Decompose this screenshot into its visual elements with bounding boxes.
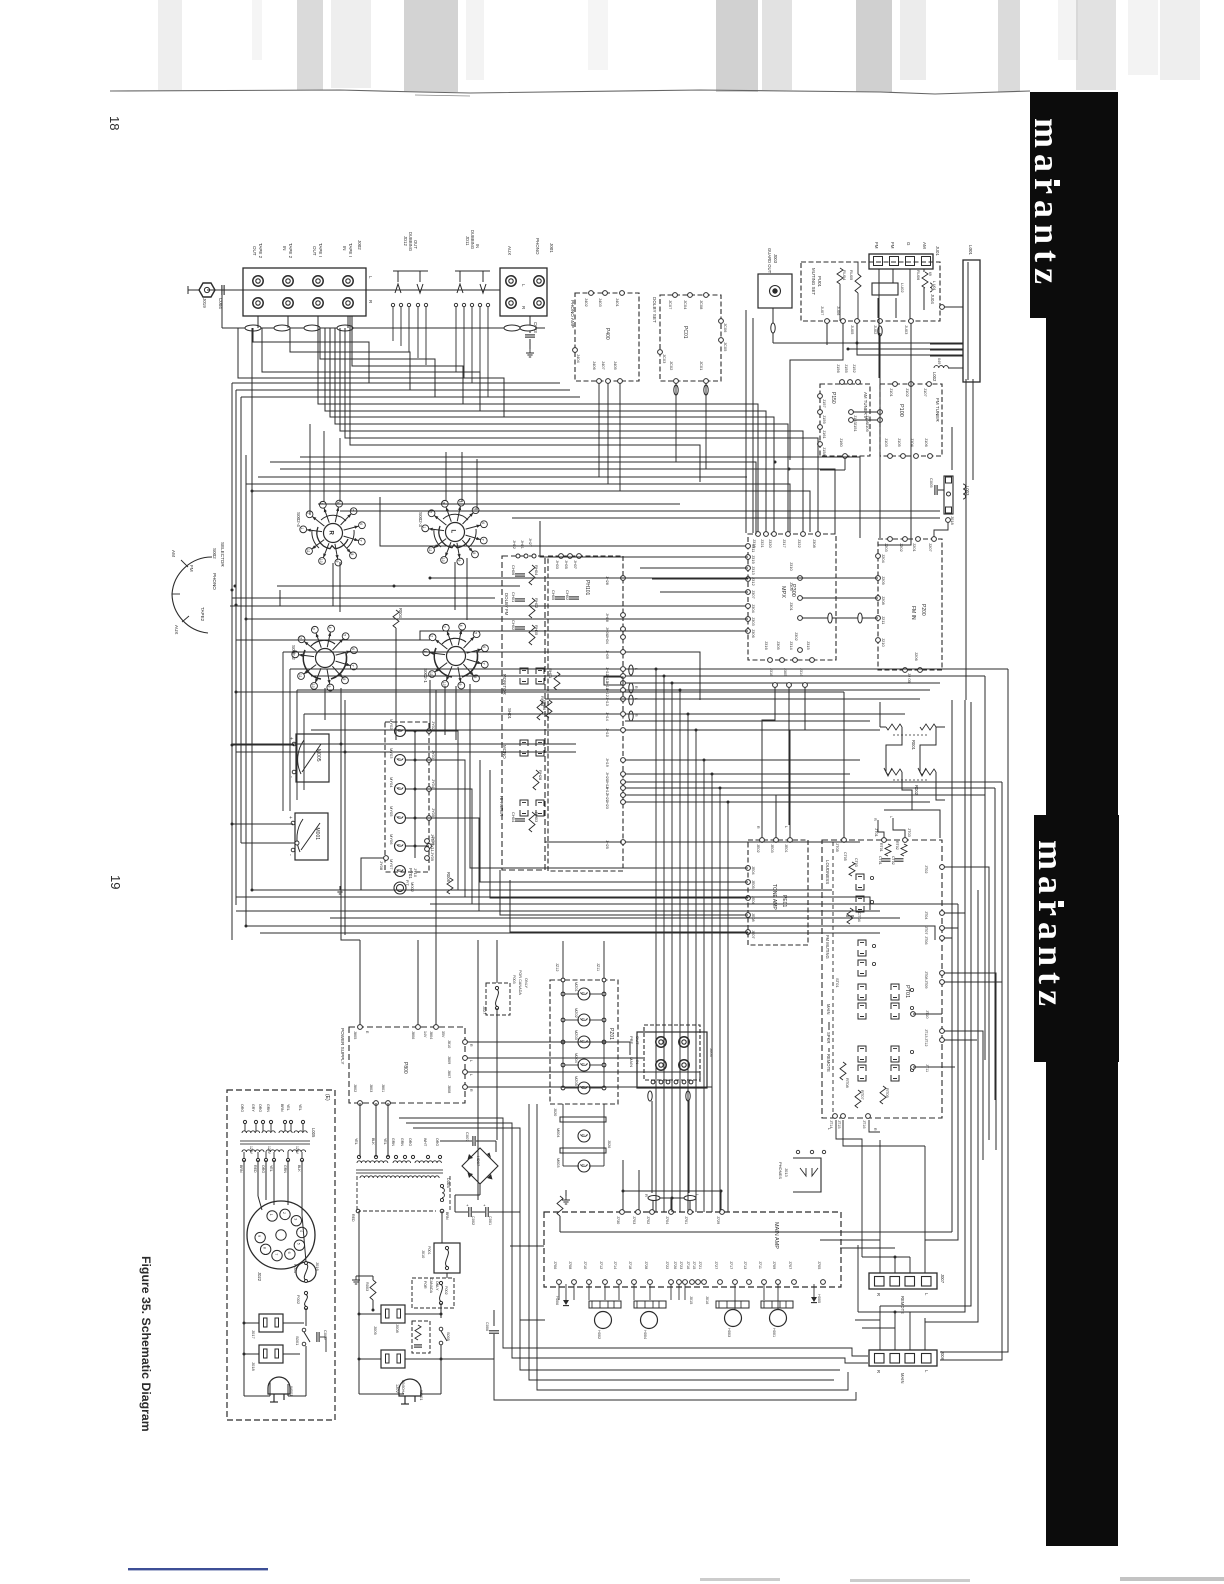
svg-text:PZ01: PZ01	[608, 1028, 614, 1040]
pin JY09	[425, 856, 430, 861]
svg-text:J209: J209	[881, 576, 886, 585]
wire	[236, 897, 870, 910]
svg-text:RED: RED	[351, 1214, 355, 1222]
svg-text:R002: R002	[914, 785, 919, 796]
svg-text:J407: J407	[601, 361, 606, 370]
pin JH05	[568, 554, 573, 559]
switch S001	[302, 1328, 306, 1332]
pin JU07	[825, 319, 830, 324]
outlet J008	[381, 1305, 405, 1323]
pin JH19	[621, 758, 626, 763]
pin JE05	[746, 880, 751, 885]
svg-text:S002-4: S002-4	[296, 512, 301, 527]
svg-text:2: 2	[298, 637, 302, 639]
svg-text:JU01: JU01	[935, 246, 940, 256]
svg-text:J003: J003	[773, 254, 778, 264]
wire	[703, 760, 705, 1212]
resistor RU06	[922, 272, 928, 288]
wire bundle from tape jacks	[257, 316, 259, 328]
capacitor CH01	[515, 598, 525, 600]
wire	[430, 577, 870, 579]
pin JE06	[746, 896, 751, 901]
svg-text:F002: F002	[296, 1295, 301, 1305]
board P300 MPX	[748, 534, 836, 660]
pin JT05	[842, 838, 847, 843]
svg-text:C002: C002	[471, 1216, 475, 1225]
svg-text:S005: S005	[446, 1332, 450, 1341]
svg-text:J015: J015	[689, 1296, 693, 1304]
svg-text:REMOTE: REMOTE	[826, 1054, 831, 1072]
svg-text:JU06: JU06	[836, 306, 841, 316]
wire tone amp feeds	[470, 750, 748, 868]
pin JT10	[911, 1012, 916, 1017]
jack TAPE 2 OUT	[253, 276, 263, 286]
svg-text:R: R	[469, 1089, 473, 1092]
pin JC03	[658, 350, 663, 355]
svg-text:J001: J001	[549, 243, 554, 253]
svg-text:8: 8	[350, 553, 354, 555]
svg-text:ST01: ST01	[835, 978, 840, 988]
svg-text:BLK: BLK	[297, 1165, 301, 1172]
svg-text:CT04: CT04	[857, 912, 862, 923]
svg-text:JC08: JC08	[699, 300, 704, 310]
svg-text:J809: J809	[447, 1056, 451, 1064]
pin J717	[733, 1280, 738, 1285]
meter M001	[295, 813, 328, 860]
svg-text:7: 7	[351, 665, 355, 667]
svg-text:J317: J317	[782, 539, 787, 548]
svg-text:JT12: JT12	[924, 1038, 928, 1046]
lamp MY07	[395, 866, 406, 877]
svg-text:PY01: PY01	[408, 868, 413, 879]
pin JC08	[704, 293, 709, 298]
svg-text:TAPE 2: TAPE 2	[288, 243, 293, 259]
svg-text:RU04: RU04	[842, 270, 847, 281]
plug W001(E)	[268, 1377, 290, 1394]
svg-text:J022: J022	[257, 1272, 262, 1282]
fuse F002 (for Canada only)	[412, 1278, 454, 1308]
pin J314	[793, 658, 798, 663]
svg-text:RH01: RH01	[548, 668, 553, 679]
svg-text:J701: J701	[684, 1216, 688, 1224]
svg-text:DUBBING: DUBBING	[470, 230, 475, 249]
pin JY07	[425, 839, 430, 844]
svg-text:CT05: CT05	[843, 852, 847, 861]
pin J312	[746, 577, 751, 582]
svg-text:J801: J801	[381, 1084, 385, 1092]
svg-text:049: 049	[937, 358, 941, 364]
svg-text:P400: P400	[604, 328, 610, 340]
svg-text:L: L	[581, 992, 585, 994]
pin J207	[932, 537, 937, 542]
svg-text:JY02: JY02	[431, 721, 436, 731]
pin JH14	[621, 712, 626, 717]
svg-text:4: 4	[328, 627, 332, 629]
diode H006	[563, 1300, 569, 1305]
bridge rectifier HD07	[462, 1148, 498, 1184]
svg-text:GRN: GRN	[391, 1138, 395, 1146]
wire	[252, 889, 832, 891]
control RT01	[885, 844, 891, 856]
svg-text:J007: J007	[940, 1274, 945, 1284]
speaker switch matrix lower	[858, 1046, 866, 1052]
transformer lead YEL	[272, 1158, 275, 1161]
svg-text:J807: J807	[447, 1070, 451, 1078]
svg-text:MY03: MY03	[389, 748, 394, 759]
svg-text:FOR: FOR	[423, 1281, 427, 1289]
transformer lead ORG	[438, 1155, 441, 1158]
wire dubbing to bus	[392, 307, 394, 341]
wire	[325, 328, 766, 532]
pin J155	[848, 380, 853, 385]
pin J317	[786, 532, 791, 537]
pin JH04	[621, 635, 626, 640]
svg-text:J711: J711	[758, 1261, 762, 1269]
svg-text:J715: J715	[692, 1261, 696, 1269]
transistor H004	[641, 1312, 658, 1329]
svg-text:J306: J306	[751, 629, 756, 638]
pin J206	[918, 668, 923, 673]
svg-text:JT09: JT09	[924, 980, 928, 988]
wire	[625, 689, 930, 691]
transformer lead YEL	[357, 1155, 360, 1158]
balance control CT04	[847, 908, 853, 924]
svg-text:9: 9	[335, 561, 339, 563]
fuse F003 (for Canada only)	[486, 983, 510, 1015]
wire	[558, 1284, 560, 1300]
pin J404	[573, 348, 578, 353]
svg-text:JT03: JT03	[907, 828, 912, 838]
pin J208	[876, 596, 881, 601]
wire	[318, 328, 758, 532]
transformer lead YEL	[301, 1120, 304, 1123]
pin JZ11	[602, 978, 606, 982]
wire	[246, 926, 935, 940]
pin J306	[746, 629, 751, 634]
pin J706	[557, 1280, 562, 1285]
pin J403	[603, 291, 608, 296]
svg-text:JH28: JH28	[605, 576, 609, 585]
svg-text:J404: J404	[576, 354, 581, 363]
pin J701	[688, 1210, 693, 1215]
svg-text:YEL: YEL	[354, 1138, 358, 1145]
wire	[625, 841, 860, 843]
wire	[711, 774, 713, 1212]
svg-text:JH23: JH23	[605, 800, 609, 809]
wire	[352, 316, 463, 404]
svg-text:S002: S002	[212, 548, 217, 559]
pin JH13	[621, 697, 626, 702]
svg-text:5: 5	[472, 508, 476, 510]
resistor RH02	[529, 598, 535, 618]
svg-text:POWER SUPPLY: POWER SUPPLY	[340, 1028, 345, 1064]
thermal fuse	[442, 1188, 444, 1198]
svg-text:LU02: LU02	[900, 283, 905, 293]
svg-text:RU05: RU05	[849, 270, 854, 281]
svg-text:R: R	[873, 818, 877, 821]
pin J712	[603, 1280, 608, 1285]
svg-text:JE02: JE02	[756, 844, 760, 853]
wire	[318, 503, 680, 505]
resistor RT07	[855, 1090, 861, 1108]
wire	[853, 411, 878, 413]
pin JH21	[621, 793, 626, 798]
jack J003 GUARD OUT	[758, 274, 792, 308]
svg-text:M003: M003	[556, 1158, 560, 1168]
svg-text:L: L	[397, 758, 401, 760]
svg-text:J705: J705	[817, 1261, 821, 1269]
speaker switch matrix upper	[858, 984, 866, 990]
svg-text:H006: H006	[555, 1296, 559, 1305]
resistor RU05	[855, 274, 861, 293]
svg-text:7: 7	[359, 540, 363, 542]
svg-text:M001: M001	[314, 828, 320, 841]
antenna L001 (AM loop)	[963, 260, 980, 382]
svg-text:L: L	[581, 1134, 585, 1136]
svg-text:J308: J308	[812, 539, 817, 548]
svg-text:J316: J316	[764, 641, 769, 650]
svg-text:AUX: AUX	[507, 246, 512, 255]
pin J710	[587, 1280, 592, 1285]
pin JT07	[940, 926, 945, 931]
svg-text:J202: J202	[899, 543, 904, 552]
wire	[260, 932, 880, 934]
svg-text:MAIN: MAIN	[826, 1004, 831, 1014]
svg-text:R: R	[756, 826, 760, 829]
svg-text:6: 6	[351, 648, 355, 650]
svg-text:CT03: CT03	[854, 858, 858, 867]
bead	[878, 326, 882, 336]
wire lamp bus	[414, 731, 416, 858]
pin J303	[746, 617, 751, 622]
wire	[253, 328, 369, 383]
lamp MY06	[395, 841, 406, 852]
svg-text:C005: C005	[929, 478, 934, 488]
svg-text:J2 05: J2 05	[907, 673, 912, 684]
svg-text:JH08: JH08	[605, 613, 609, 622]
svg-text:J314: J314	[799, 668, 803, 676]
svg-text:FM TUNER: FM TUNER	[935, 398, 940, 422]
svg-text:F003: F003	[512, 975, 516, 984]
svg-text:J152: J152	[852, 364, 857, 373]
svg-text:YEL: YEL	[298, 1104, 302, 1111]
svg-text:J406: J406	[592, 361, 597, 370]
transformer lead ORG	[261, 1120, 264, 1123]
lamp MY05	[395, 813, 406, 824]
pin JH28	[621, 576, 626, 581]
pin JC04	[688, 293, 693, 298]
svg-text:R: R	[873, 1128, 877, 1131]
svg-text:J017: J017	[251, 1330, 256, 1339]
svg-text:JT11: JT11	[925, 1064, 929, 1072]
coil LU01	[930, 283, 932, 292]
svg-text:J403: J403	[598, 298, 603, 307]
pin J713	[747, 1280, 752, 1285]
pin JH16	[621, 681, 626, 686]
svg-text:L: L	[397, 816, 401, 818]
marantz logo bar top	[1030, 92, 1118, 318]
svg-text:18: 18	[107, 116, 122, 130]
svg-text:J102: J102	[905, 388, 910, 397]
wire	[246, 484, 790, 532]
svg-text:JZ11: JZ11	[596, 963, 600, 971]
wire	[727, 802, 729, 1212]
ground	[355, 1276, 357, 1280]
svg-text:JE08: JE08	[751, 913, 755, 922]
svg-text:IN: IN	[475, 244, 480, 248]
wire	[330, 328, 774, 532]
pin J316b	[773, 683, 778, 688]
pin JU05	[855, 319, 860, 324]
svg-text:JE04: JE04	[751, 866, 755, 875]
svg-text:JT04: JT04	[924, 911, 928, 919]
svg-text:10: 10	[442, 682, 446, 686]
svg-text:J712: J712	[599, 1261, 603, 1269]
svg-text:3: 3	[293, 1218, 297, 1220]
svg-text:J161: J161	[822, 430, 827, 439]
pin JT12	[940, 1038, 945, 1043]
svg-text:JH03: JH03	[555, 560, 559, 569]
svg-text:14V: 14V	[423, 1031, 427, 1038]
svg-text:JC07: JC07	[668, 300, 673, 310]
transformer lead ORG	[264, 1158, 267, 1161]
switch contact	[536, 800, 544, 806]
wire	[559, 1216, 561, 1232]
pin J305	[780, 658, 785, 663]
wire	[340, 510, 940, 512]
pin JH23	[621, 800, 626, 805]
svg-text:GRN: GRN	[283, 1165, 287, 1173]
switch JD11 dubbing in	[455, 270, 490, 272]
svg-text:J201: J201	[912, 543, 917, 552]
pin JT08	[940, 971, 945, 976]
svg-text:JY09: JY09	[430, 852, 435, 862]
svg-text:H005: H005	[817, 1294, 821, 1303]
svg-text:L: L	[397, 787, 401, 789]
svg-text:RT07: RT07	[860, 1090, 865, 1100]
svg-text:R: R	[644, 1194, 649, 1197]
pin J722	[669, 1280, 674, 1285]
wire	[545, 841, 622, 843]
transformer lead BLK	[300, 1158, 303, 1161]
svg-text:RH28: RH28	[538, 770, 543, 781]
svg-text:RT02: RT02	[895, 841, 899, 850]
svg-text:J009: J009	[373, 1326, 378, 1335]
wire speaker harness	[820, 1239, 880, 1241]
svg-text:J320: J320	[768, 539, 773, 548]
bead	[674, 385, 678, 395]
svg-text:R: R	[469, 1044, 473, 1047]
transformer lead GRN	[403, 1155, 406, 1158]
svg-text:OUT: OUT	[413, 240, 418, 249]
svg-text:J315: J315	[806, 641, 811, 650]
svg-text:DUBBING: DUBBING	[408, 232, 413, 251]
svg-text:J803: J803	[369, 1084, 373, 1092]
lamp M002 (stereo indicator)	[394, 882, 406, 894]
svg-text:8: 8	[263, 1247, 267, 1249]
ground	[339, 886, 341, 890]
pin J161	[818, 425, 823, 430]
svg-text:YEL: YEL	[383, 1138, 387, 1145]
switch S002-2	[316, 649, 335, 668]
svg-text:J156: J156	[836, 364, 841, 373]
pin J727	[718, 1280, 723, 1285]
jack TAPE I IN	[343, 276, 353, 286]
svg-text:PHONO: PHONO	[535, 238, 540, 255]
pin J805	[358, 1025, 363, 1030]
transformer L003	[944, 476, 953, 514]
wire	[625, 729, 880, 731]
pin J716	[690, 1280, 695, 1285]
svg-text:BRN: BRN	[445, 1212, 449, 1220]
svg-text:JT08: JT08	[924, 971, 928, 979]
wire	[625, 794, 985, 796]
jack J013 PHONES	[793, 1158, 821, 1192]
wire	[695, 730, 697, 1212]
svg-text:JH01: JH01	[520, 540, 524, 549]
wire	[512, 517, 940, 519]
svg-text:9: 9	[327, 686, 331, 688]
pin J729	[720, 1210, 725, 1215]
svg-text:CH02: CH02	[511, 620, 516, 631]
svg-text:FM IN: FM IN	[910, 606, 916, 620]
wire	[277, 585, 520, 587]
pin JC07	[673, 293, 678, 298]
svg-text:J305: J305	[776, 641, 781, 650]
outlet J018	[259, 1345, 283, 1363]
svg-text:J008: J008	[395, 1324, 400, 1333]
wire	[236, 751, 576, 753]
pin JT11	[911, 1065, 916, 1070]
svg-text:(E): (E)	[324, 1094, 330, 1101]
svg-text:L: L	[450, 530, 456, 534]
svg-text:J151: J151	[853, 423, 858, 432]
svg-text:5: 5	[342, 634, 346, 636]
svg-text:2: 2	[429, 635, 433, 637]
terminal block J007 REMOTE	[869, 1273, 937, 1289]
pin J104	[914, 454, 919, 459]
svg-text:OUT: OUT	[312, 246, 317, 256]
board PU01 MUTING SET	[801, 262, 940, 321]
pin J723	[683, 1280, 688, 1285]
resistor RH05	[529, 625, 535, 645]
lamp M003	[578, 1160, 590, 1172]
pin J804	[434, 1025, 439, 1030]
svg-text:GRY: GRY	[251, 1104, 255, 1112]
pin J157	[818, 394, 823, 399]
svg-text:JC01: JC01	[699, 361, 704, 371]
pin J018	[946, 518, 951, 523]
lamp bar J026	[560, 1148, 606, 1153]
svg-text:JH02: JH02	[512, 540, 516, 549]
svg-text:PU01: PU01	[817, 276, 822, 288]
pin J728	[648, 1280, 653, 1285]
pin JT02	[940, 865, 945, 870]
pin J307	[746, 590, 751, 595]
svg-text:RH02: RH02	[534, 598, 539, 609]
svg-text:JY08: JY08	[379, 861, 384, 871]
transformer L005	[242, 1131, 260, 1133]
svg-text:TAPE I: TAPE I	[348, 243, 353, 257]
svg-text:J402: J402	[584, 298, 589, 307]
resistor RH01	[554, 672, 560, 690]
wire bus left verticals	[231, 383, 233, 940]
svg-text:7: 7	[274, 1253, 278, 1255]
svg-text:J311: J311	[751, 544, 756, 553]
svg-text:J721: J721	[698, 1261, 702, 1269]
board PC01 DOLBY SET	[660, 295, 721, 381]
switch contact	[536, 740, 544, 746]
